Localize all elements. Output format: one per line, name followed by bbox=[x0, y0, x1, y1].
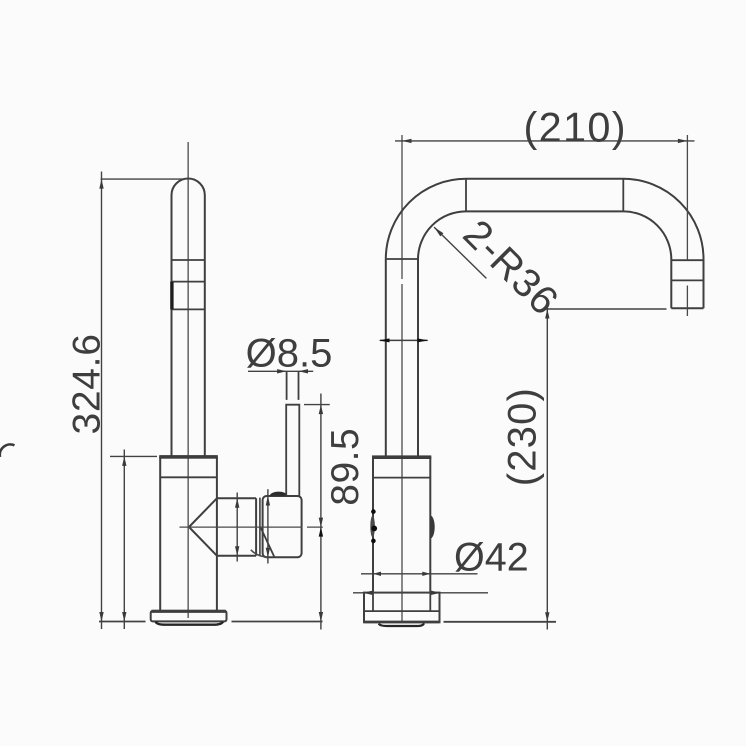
front view top tube right tick bbox=[622, 179, 624, 212]
valve diameter bottom arrow bbox=[235, 546, 239, 556]
valve center to ground top arrow bbox=[319, 527, 323, 537]
front view top tube left tick bbox=[465, 179, 467, 212]
ground line front view bbox=[444, 621, 557, 623]
side view riser centerline bbox=[187, 142, 189, 618]
diameter 8.5 dimension line bbox=[248, 370, 313, 372]
dimension 324.6 top arrow bbox=[99, 179, 103, 189]
side view handle pivot dome bbox=[270, 492, 288, 496]
side view handle swing arc bbox=[251, 550, 268, 558]
side view riser pipe outline bbox=[172, 179, 205, 457]
diameter 42 right arrow bbox=[422, 572, 430, 576]
dimension 230 top arrow bbox=[545, 309, 549, 319]
svg-text:Ø8.5: Ø8.5 bbox=[246, 331, 333, 375]
side view body top thick edge bbox=[159, 455, 218, 459]
front view outlet tick 1 bbox=[671, 259, 703, 261]
left margin partial arc bbox=[0, 444, 15, 457]
front view riser centerline bbox=[401, 135, 403, 622]
handle height dimension line bbox=[267, 489, 269, 563]
front view outlet tick 2 bbox=[671, 279, 703, 281]
side view body outline bbox=[160, 457, 217, 612]
dimension 89.5 top arrow bbox=[319, 405, 323, 415]
front view spout end bottom bbox=[671, 307, 703, 309]
valve diameter dimension line bbox=[236, 493, 238, 562]
base width dimension line bbox=[353, 592, 488, 594]
front view valve right bump bbox=[430, 516, 434, 539]
svg-text:2-R36: 2-R36 bbox=[455, 212, 567, 324]
side view handle base bbox=[263, 496, 302, 557]
front view spout inner profile bbox=[418, 211, 671, 457]
radius leader line bbox=[434, 227, 486, 278]
valve diameter top arrow bbox=[235, 498, 239, 508]
dimension 210 left arrow bbox=[402, 139, 412, 143]
ground line right of base bbox=[232, 621, 323, 623]
front view rod tip mark bbox=[380, 339, 428, 341]
front view handle hub left dots bbox=[371, 509, 376, 514]
handle height top arrow bbox=[266, 496, 270, 506]
valve center to ground bottom arrow bbox=[319, 612, 323, 622]
side view valve cone bbox=[189, 498, 256, 556]
front view body cap inner line bbox=[373, 477, 430, 479]
front view outlet centerline bbox=[686, 135, 688, 316]
front view base inner line bbox=[364, 610, 440, 612]
svg-text:(230): (230) bbox=[501, 387, 545, 486]
front view base bottom thick edge bbox=[365, 621, 440, 624]
side view base bottom shadow bbox=[156, 622, 223, 625]
diameter 8.5 left arrow bbox=[277, 369, 287, 373]
front view riser tangent tick bbox=[386, 258, 418, 260]
diameter 42 dimension line bbox=[361, 573, 478, 575]
dimension 210 right arrow bbox=[678, 139, 688, 143]
side view outlet tick 2 bbox=[172, 281, 205, 283]
front view base bottom shadow bbox=[379, 623, 424, 626]
dimension 230 bottom arrow bbox=[545, 612, 549, 622]
dimension 230 line bbox=[546, 303, 548, 630]
front view base outline bbox=[364, 593, 440, 623]
diameter 42 left arrow bbox=[373, 572, 381, 576]
handle height bottom arrow bbox=[266, 548, 270, 558]
front view spout outer profile bbox=[386, 179, 704, 457]
body height top arrow bbox=[122, 456, 126, 466]
svg-text:(210): (210) bbox=[524, 104, 627, 151]
dimension 230 top extension line bbox=[546, 308, 666, 310]
svg-text:324.6: 324.6 bbox=[66, 333, 109, 434]
body height top extension line bbox=[110, 455, 157, 457]
front view base body sleeve bbox=[373, 593, 430, 612]
side view outlet end line bbox=[172, 308, 205, 310]
diameter 8.5 right arrow bbox=[299, 369, 309, 373]
dimension 89.5 line bbox=[320, 394, 322, 630]
base width left arrow bbox=[363, 591, 373, 595]
front view body outline bbox=[373, 457, 430, 593]
front view handle hub left lens bbox=[370, 516, 375, 538]
side view handle rod upper bbox=[287, 371, 299, 400]
side view outlet tick 1 bbox=[172, 259, 205, 261]
svg-text:89.5: 89.5 bbox=[324, 428, 367, 506]
ground line left bbox=[99, 621, 146, 623]
front view body top thick edge bbox=[372, 455, 431, 459]
side view handle swing line bbox=[261, 527, 275, 556]
side view base plate bbox=[151, 611, 227, 622]
dimension 324.6 bottom arrow bbox=[99, 612, 103, 622]
side view base plate top thick edge bbox=[152, 610, 226, 613]
body height bottom arrow bbox=[122, 612, 126, 622]
dimension 210 line bbox=[395, 140, 695, 142]
side view valve ring bbox=[259, 498, 261, 557]
side view body cap inner line bbox=[160, 476, 217, 478]
dimension 324.6 line bbox=[101, 172, 103, 630]
base width right arrow bbox=[431, 591, 441, 595]
side view valve centerline bbox=[180, 526, 323, 528]
side view handle rod lower bbox=[286, 405, 299, 497]
dimension 89.5 top extension line bbox=[304, 404, 330, 406]
radius leader arrow bbox=[434, 227, 443, 236]
front view rod tip left arrow bbox=[379, 338, 390, 342]
dimension 89.5 bottom arrow bbox=[319, 518, 323, 528]
svg-text:Ø42: Ø42 bbox=[454, 536, 529, 580]
front view rod tip right arrow bbox=[417, 338, 428, 342]
side view outlet dark slot bbox=[170, 282, 173, 310]
dimension 324.6 top extension line bbox=[101, 178, 185, 180]
body height dimension line bbox=[123, 450, 125, 630]
